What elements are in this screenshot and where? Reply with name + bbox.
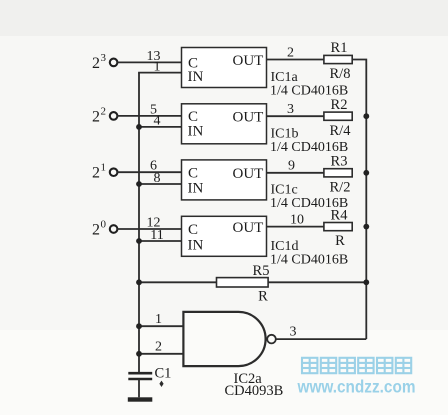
watermark (decorative) — [302, 358, 411, 373]
junction: bus / pin 4 — [136, 124, 142, 130]
junction: output bus / R4 — [363, 224, 369, 230]
svg-text:R/2: R/2 — [330, 179, 351, 195]
svg-text:3: 3 — [290, 325, 297, 340]
designator IC1b 1/4 CD4016B — [270, 127, 348, 155]
wire: pin 9 (OUT) to R3 — [267, 172, 324, 174]
junction: left bus / R5 — [136, 279, 142, 285]
wire: bus to pin 4 (IN) — [138, 126, 181, 128]
svg-text:IN: IN — [188, 124, 204, 140]
svg-text:2: 2 — [92, 165, 100, 182]
wire: bus to pin 11 (IN) — [138, 240, 181, 242]
wire: terminal 2^3 to pin 13 (C) — [117, 61, 181, 63]
svg-text:R4: R4 — [331, 207, 349, 223]
capacitor C1 — [128, 365, 171, 397]
input terminal 2^2 — [110, 112, 118, 120]
wire: bus to gate input pin 1 — [139, 325, 183, 327]
analog switch IC1a (1/4 CD4016B) — [182, 48, 267, 88]
resistor R2 value R/4 — [324, 97, 352, 139]
designator IC1a 1/4 CD4016B — [270, 70, 348, 98]
analog switch IC1d (1/4 CD4016B) — [182, 216, 267, 256]
svg-text:R1: R1 — [331, 40, 348, 56]
designator IC1c 1/4 CD4016B — [270, 183, 348, 211]
NAND gate IC2a (CD4093B) body — [183, 312, 265, 366]
svg-text:OUT: OUT — [233, 166, 264, 182]
input terminal 2^1 — [110, 168, 118, 176]
junction: output bus / R3 — [363, 170, 369, 176]
svg-text:10: 10 — [290, 212, 304, 227]
svg-text:1/4 CD4016B: 1/4 CD4016B — [270, 252, 348, 267]
wire: gate output pin 3 to output bus — [276, 338, 366, 340]
analog switch IC1c (1/4 CD4016B) — [182, 160, 267, 200]
svg-text:2: 2 — [92, 222, 100, 239]
wire: bus to pin 8 (IN) — [138, 183, 181, 185]
wire: bus to gate input pin 2 — [139, 353, 183, 355]
svg-text:C: C — [188, 165, 198, 181]
designator IC1d 1/4 CD4016B — [270, 239, 348, 267]
wire: terminal 2^2 to pin 5 (C) — [117, 115, 181, 117]
wire: bus to pin 1 (IN) — [138, 72, 181, 74]
input terminal 2^0 — [110, 225, 118, 233]
junction: bus / pin 2 — [136, 351, 142, 357]
svg-text:3: 3 — [287, 102, 294, 117]
svg-text:2: 2 — [287, 45, 294, 60]
svg-text:IN: IN — [188, 238, 204, 254]
svg-text:0: 0 — [101, 219, 107, 231]
svg-text:11: 11 — [150, 228, 163, 243]
wire: pin 10 (OUT) to R4 — [267, 226, 324, 228]
svg-text:CD4093B: CD4093B — [225, 383, 284, 399]
svg-text:R5: R5 — [253, 263, 270, 279]
svg-text:R/4: R/4 — [330, 123, 352, 139]
svg-text:OUT: OUT — [233, 220, 264, 236]
wire: input common bus (left vertical, IN pins / R5 / gate inputs / C1) — [138, 73, 140, 373]
analog switch IC1b (1/4 CD4016B) — [182, 104, 267, 144]
junction: bus / pin 11 — [136, 238, 142, 244]
svg-text:8: 8 — [154, 171, 161, 186]
svg-text:1: 1 — [154, 59, 161, 74]
wire: pin 2 (OUT) to R1 — [267, 59, 324, 61]
svg-text:www.cndzz.com: www.cndzz.com — [297, 377, 416, 397]
svg-text:OUT: OUT — [233, 110, 264, 126]
svg-text:3: 3 — [101, 52, 107, 64]
svg-text:OUT: OUT — [233, 53, 264, 69]
svg-text:R3: R3 — [331, 154, 348, 170]
wire: pin 3 (OUT) to R2 — [267, 115, 324, 117]
svg-text:C: C — [188, 222, 198, 238]
wire: output bus (right vertical, R1-R5 outputs to gate output) — [352, 60, 366, 340]
wire: terminal 2^1 to pin 6 (C) — [117, 171, 181, 173]
input terminal 2^3 — [110, 59, 118, 67]
svg-text:R/8: R/8 — [330, 66, 351, 82]
junction: output bus / R5 — [363, 279, 369, 285]
junction: bus / pin 1 — [136, 323, 142, 329]
NAND gate output bubble — [267, 335, 276, 344]
wire: bus to R5 to output bus — [139, 281, 366, 283]
svg-text:R2: R2 — [331, 97, 348, 113]
svg-text:9: 9 — [288, 159, 295, 174]
svg-text:2: 2 — [101, 105, 107, 117]
svg-text:4: 4 — [154, 114, 161, 129]
svg-text:2: 2 — [92, 108, 100, 125]
resistor R3 value R/2 — [324, 154, 352, 196]
svg-text:R: R — [335, 233, 345, 249]
svg-text:1: 1 — [101, 162, 107, 174]
resistor R1 value R/8 — [324, 40, 352, 82]
ground — [128, 397, 153, 401]
svg-text:1: 1 — [155, 312, 162, 327]
svg-text:IN: IN — [188, 69, 204, 85]
designator IC2a CD4093B — [225, 371, 284, 399]
junction: bus / pin 8 — [136, 181, 142, 187]
svg-text:2: 2 — [92, 55, 100, 72]
resistor R4 value R — [324, 207, 352, 249]
junction: output bus / R2 — [363, 113, 369, 119]
svg-text:C1: C1 — [155, 365, 172, 381]
svg-text:IN: IN — [188, 181, 204, 197]
resistor R5 value R — [217, 263, 270, 304]
svg-text:2: 2 — [155, 339, 162, 354]
svg-text:R: R — [258, 289, 268, 305]
wire: terminal 2^0 to pin 12 (C) — [117, 228, 181, 230]
